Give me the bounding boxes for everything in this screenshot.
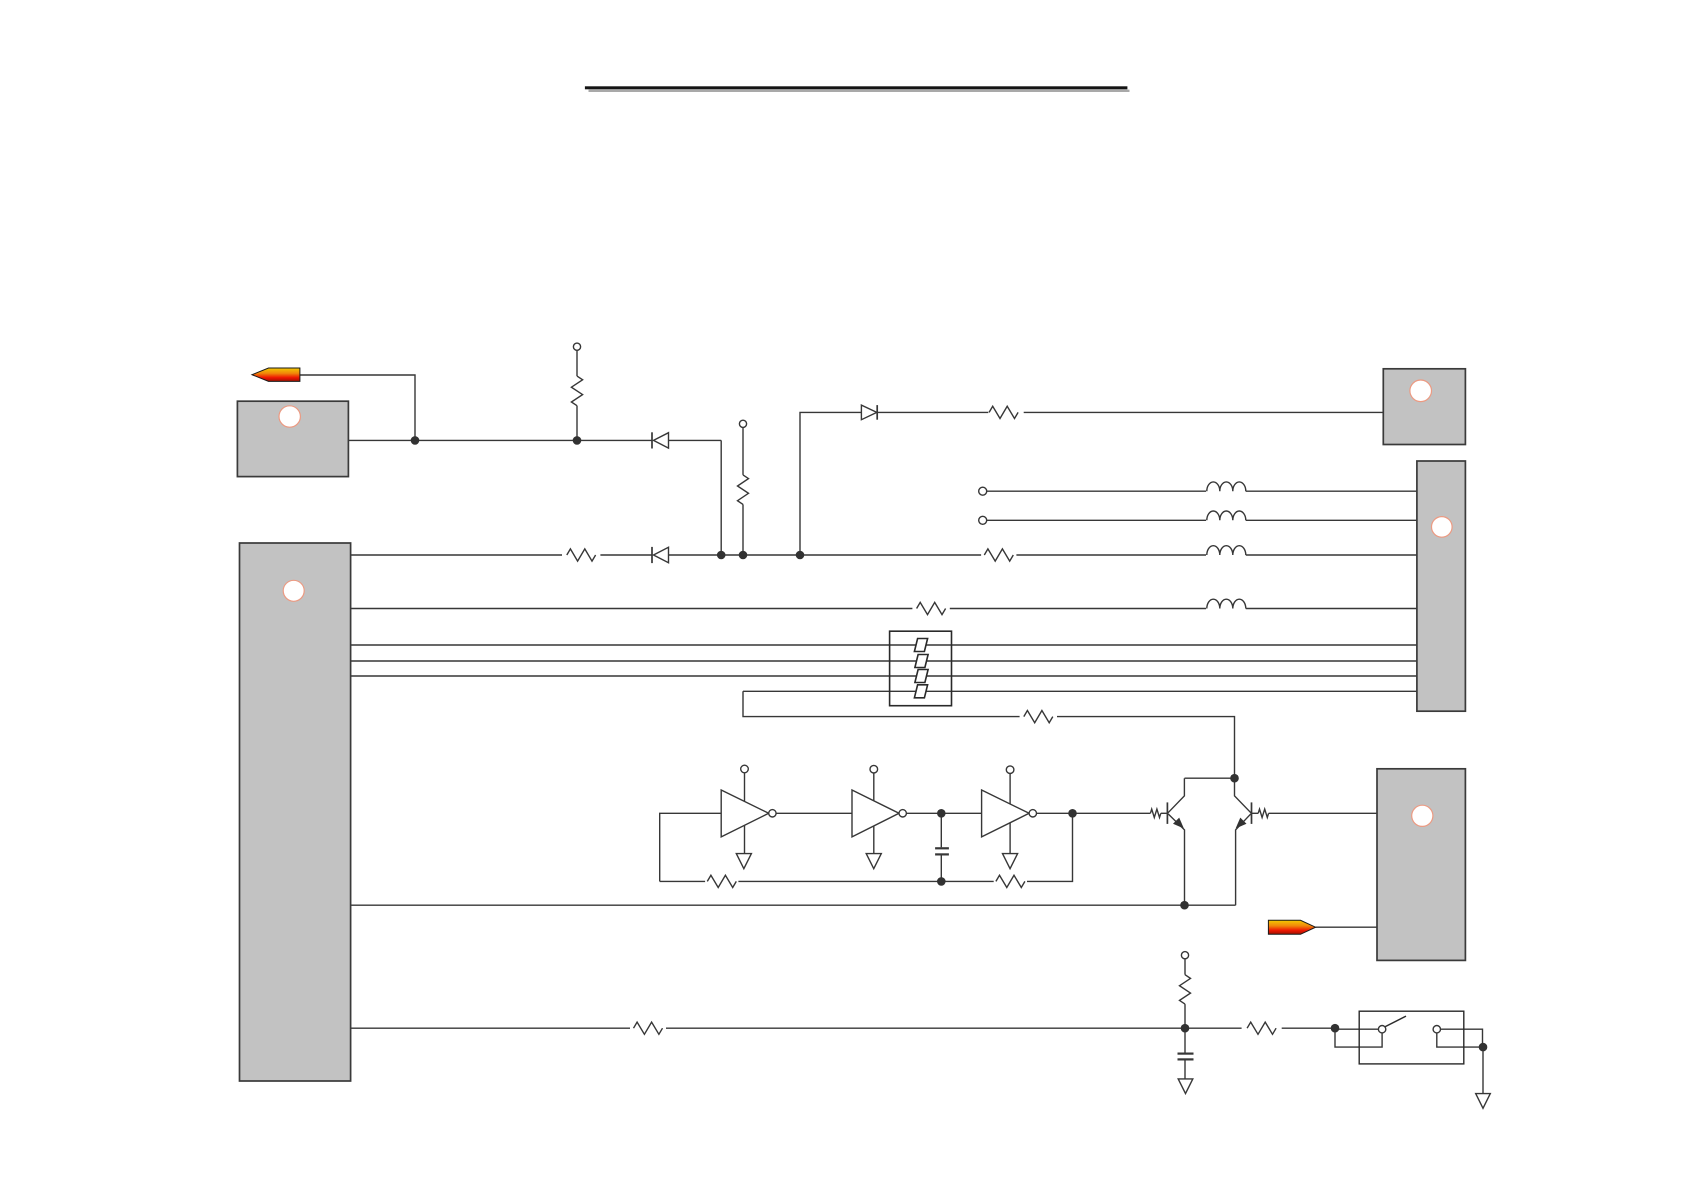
wire xyxy=(1316,926,1377,928)
terminal U2 power pin xyxy=(870,765,878,773)
junction node xyxy=(1181,1024,1190,1033)
wire xyxy=(1269,812,1377,814)
wire xyxy=(660,813,722,881)
wire xyxy=(600,554,652,556)
wire xyxy=(1282,1027,1335,1029)
wire xyxy=(906,812,981,814)
wire xyxy=(743,691,1020,716)
terminal TP4 xyxy=(979,516,987,524)
wire xyxy=(351,904,1236,906)
switch contact pole xyxy=(1378,1026,1385,1033)
fuse F1 xyxy=(914,639,927,652)
resistor R12 xyxy=(707,875,736,887)
title underline xyxy=(585,86,1130,92)
wire xyxy=(720,440,722,555)
ground xyxy=(736,854,751,869)
wire xyxy=(1037,812,1151,814)
wire xyxy=(1441,1029,1483,1047)
wire xyxy=(1482,1047,1484,1094)
junction node xyxy=(1230,774,1239,783)
wire xyxy=(669,439,722,441)
wire xyxy=(987,519,1206,521)
inverter U2 xyxy=(852,773,906,854)
fuse F4 xyxy=(914,685,927,698)
diode D3 xyxy=(861,405,877,420)
fuse box F1-F4 xyxy=(890,631,952,706)
resistor R13 xyxy=(996,875,1025,887)
junction node xyxy=(739,551,748,560)
inverter U3 xyxy=(982,772,1037,853)
wire xyxy=(987,490,1206,492)
junction node xyxy=(717,551,726,560)
wire xyxy=(351,554,562,556)
transistor Q1 xyxy=(1167,778,1184,905)
junction node xyxy=(573,436,582,445)
inductor L1 xyxy=(1207,482,1246,491)
resistor R1 xyxy=(571,350,582,440)
ground xyxy=(1003,854,1018,869)
capacitor C1 xyxy=(935,813,949,881)
transistor Q2 xyxy=(1235,778,1252,905)
fuse F2 xyxy=(915,655,928,668)
resistor R2 xyxy=(567,549,596,561)
connector CN5 pin circle xyxy=(1412,805,1433,826)
wire xyxy=(1246,554,1417,556)
junction node xyxy=(411,436,420,445)
wire xyxy=(1246,490,1417,492)
resistor R7 xyxy=(1024,711,1053,723)
fuse F3 xyxy=(915,670,928,683)
diode D2 xyxy=(652,547,669,563)
terminal U1 power pin xyxy=(741,765,749,773)
wire xyxy=(660,880,705,882)
wire xyxy=(1246,608,1417,610)
wire xyxy=(776,812,852,814)
resistor R11 xyxy=(1150,809,1160,817)
wire xyxy=(666,1027,1242,1029)
wire xyxy=(743,690,1417,692)
resistor R3 xyxy=(984,549,1013,561)
wire xyxy=(351,660,1417,662)
terminal TP3 xyxy=(979,487,987,495)
resistor R14 xyxy=(1258,809,1268,817)
wire xyxy=(351,608,913,610)
wire xyxy=(1057,717,1235,779)
connector CN4 block xyxy=(1417,461,1466,711)
wire xyxy=(351,1027,630,1029)
terminal TP1 xyxy=(573,343,580,350)
junction node xyxy=(937,877,946,886)
diode D1 xyxy=(652,432,669,448)
wire xyxy=(1016,554,1206,556)
capacitor C2 xyxy=(1178,1028,1194,1079)
junction node xyxy=(1479,1043,1488,1052)
wire xyxy=(877,411,988,413)
resistor R5 xyxy=(989,406,1018,418)
wire xyxy=(1437,1033,1483,1047)
ground xyxy=(866,854,881,869)
wire xyxy=(351,675,1417,677)
wire xyxy=(1024,411,1384,413)
resistor R10 xyxy=(1180,959,1191,1028)
wire xyxy=(1252,812,1258,814)
junction node xyxy=(1331,1024,1340,1033)
terminal TP2 xyxy=(739,420,746,427)
junction node xyxy=(937,809,946,818)
wire xyxy=(950,608,1206,610)
resistor R4 xyxy=(738,427,749,555)
connector CN5 block xyxy=(1377,769,1465,961)
ground xyxy=(1476,1094,1491,1109)
connector CN4 pin circle xyxy=(1432,517,1453,538)
connector CN1 block xyxy=(240,543,351,1081)
junction node xyxy=(796,551,805,560)
wire xyxy=(351,644,1417,646)
inductor L3 xyxy=(1207,546,1246,555)
junction node xyxy=(1068,809,1077,818)
signal arrow (left, off-page) xyxy=(252,368,300,381)
resistor R8 xyxy=(634,1022,663,1034)
connector CN3 pin circle xyxy=(1410,380,1432,402)
terminal U3 power pin xyxy=(1006,766,1014,774)
connector CN3 block xyxy=(1383,369,1465,445)
inverter U1 xyxy=(721,773,776,854)
wire xyxy=(300,375,415,440)
wire xyxy=(669,554,982,556)
wire xyxy=(1027,813,1073,881)
connector CN2 block xyxy=(237,401,348,476)
wire xyxy=(1185,777,1235,779)
junction node xyxy=(1180,901,1189,910)
wire xyxy=(738,880,993,882)
wire xyxy=(348,439,652,441)
wire xyxy=(1335,1028,1378,1030)
resistor R9 xyxy=(1247,1022,1276,1034)
connector CN2 pin circle xyxy=(279,406,300,427)
resistor R6 xyxy=(917,602,946,614)
inductor L2 xyxy=(1207,511,1246,520)
inductor L4 xyxy=(1207,599,1246,608)
wire xyxy=(1246,519,1417,521)
switch SW1 xyxy=(1359,1011,1464,1064)
wire xyxy=(800,412,861,555)
terminal TP5 xyxy=(1181,952,1188,959)
signal arrow (right, off-page) xyxy=(1268,920,1315,934)
wire xyxy=(1161,812,1167,814)
ground xyxy=(1178,1079,1193,1094)
wire xyxy=(1335,1028,1382,1047)
switch contact throw xyxy=(1433,1026,1440,1033)
connector CN1 pin circle xyxy=(283,580,304,601)
